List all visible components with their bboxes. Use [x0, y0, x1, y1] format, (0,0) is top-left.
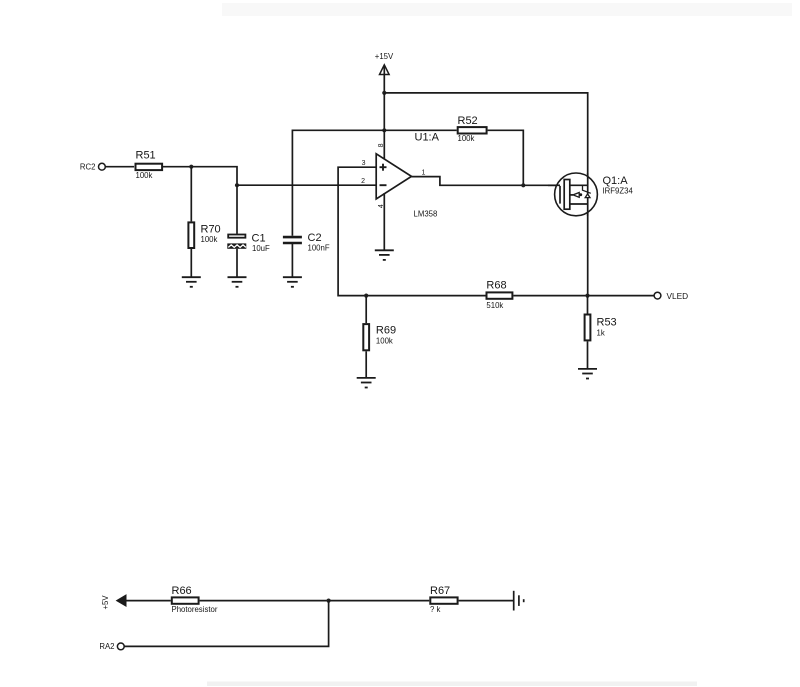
wire node B to op-amp inverting input — [237, 184, 376, 186]
capacitor C2 — [283, 232, 330, 253]
wire top rail to MOSFET source column — [384, 93, 587, 296]
svg-text:1: 1 — [422, 170, 426, 177]
terminal VLED — [654, 291, 688, 301]
wire R66 to node H — [200, 600, 329, 602]
svg-text:IRF9Z34: IRF9Z34 — [603, 187, 634, 196]
wire node G down to R53 — [587, 296, 589, 314]
wire node C down to node D — [383, 93, 385, 130]
terminal RA2 — [99, 642, 124, 651]
resistor R67 — [430, 585, 458, 614]
wire +15V down to node C — [383, 66, 385, 93]
svg-text:510k: 510k — [486, 301, 503, 310]
wire R51 to node A — [162, 166, 191, 168]
svg-text:RC2: RC2 — [80, 162, 96, 171]
svg-text:100k: 100k — [201, 235, 218, 244]
svg-text:Photoresistor: Photoresistor — [172, 605, 218, 614]
svg-text:R52: R52 — [458, 115, 478, 127]
ground under C1 — [228, 277, 247, 287]
ground right of R67 (rotated) — [514, 591, 524, 611]
wire node D to C2 — [292, 130, 384, 236]
wire node F to R68 — [366, 295, 485, 297]
svg-text:VLED: VLED — [667, 291, 689, 301]
wire +5V arrow to R66 — [125, 600, 171, 602]
ground under R70 — [182, 277, 201, 287]
svg-text:R53: R53 — [597, 317, 617, 329]
svg-text:10uF: 10uF — [252, 244, 270, 253]
ground under op-amp — [375, 250, 394, 260]
wire op-amp pin 4 to ground — [383, 193, 385, 250]
svg-text:R68: R68 — [486, 280, 506, 292]
ground under R53 — [578, 369, 597, 379]
node G junction — [585, 294, 589, 298]
wire node B down to C1 — [236, 185, 238, 234]
svg-text:100nF: 100nF — [308, 244, 330, 253]
svg-text:2: 2 — [361, 178, 365, 185]
node H junction — [327, 599, 331, 603]
wire node H to R67 — [329, 600, 430, 602]
wire R69 to ground — [365, 351, 367, 378]
svg-text:3: 3 — [362, 160, 366, 167]
wire R67 to ground — [459, 600, 514, 602]
svg-text:100k: 100k — [376, 337, 393, 346]
svg-text:R69: R69 — [376, 325, 396, 337]
resistor R68 — [486, 280, 512, 311]
wire node A down to R70 — [190, 167, 192, 222]
svg-text:R67: R67 — [430, 585, 450, 597]
node D junction — [382, 128, 386, 132]
svg-text:Q1:A: Q1:A — [603, 175, 629, 187]
wire RA2 up to node H — [124, 601, 328, 647]
power +15V symbol — [375, 52, 394, 75]
wire node D to op-amp V+ pin 8 — [383, 130, 385, 160]
wire node D to R52 — [384, 129, 456, 131]
svg-text:R66: R66 — [172, 585, 192, 597]
wire node A to corner and down to node B — [191, 167, 237, 186]
svg-text:LM358: LM358 — [414, 210, 438, 219]
op-amp U1:A — [361, 132, 440, 219]
node B junction — [235, 183, 239, 187]
wire R53 to ground — [587, 341, 589, 369]
svg-text:1k: 1k — [597, 329, 605, 338]
ground under R69 — [357, 378, 376, 388]
svg-text:U1:A: U1:A — [415, 132, 440, 144]
wire RC2 to R51 — [105, 166, 134, 168]
svg-text:C1: C1 — [252, 233, 266, 245]
resistor R70 — [188, 222, 220, 248]
wire node F down to R69 — [365, 296, 367, 324]
wire R68 to node G — [513, 295, 587, 297]
resistor R52 — [458, 115, 487, 143]
svg-text:C2: C2 — [308, 232, 322, 244]
ground under C2 — [283, 277, 302, 287]
svg-text:R51: R51 — [136, 150, 156, 162]
terminal RC2 — [80, 162, 105, 171]
svg-text:RA2: RA2 — [99, 642, 114, 651]
capacitor C1 (electrolytic) — [227, 233, 270, 254]
transistor Q1 (IRF9Z34 p-MOSFET) — [548, 173, 633, 216]
svg-text:? k: ? k — [430, 605, 441, 614]
svg-text:8: 8 — [378, 143, 385, 147]
wire R52 to gate node E — [488, 130, 524, 185]
wire C1 to ground — [236, 249, 238, 277]
svg-text:100k: 100k — [136, 171, 153, 180]
svg-text:100k: 100k — [458, 134, 475, 143]
node F junction — [364, 294, 368, 298]
wire R70 to ground — [190, 249, 192, 277]
svg-text:R70: R70 — [201, 224, 221, 236]
wire C2 to ground — [291, 243, 293, 277]
svg-text:+15V: +15V — [375, 52, 394, 61]
power +5V arrow (left-pointing) — [101, 595, 126, 610]
svg-text:+5V: +5V — [101, 595, 110, 610]
wire node E to MOSFET gate — [523, 184, 560, 186]
node C junction (+15V rail) — [382, 91, 386, 95]
resistor R66 (photoresistor) — [172, 585, 218, 614]
wire op-amp output — [411, 177, 523, 186]
node A junction — [189, 165, 193, 169]
resistor R69 — [363, 324, 396, 350]
resistor R51 — [136, 150, 163, 181]
wire node G to VLED terminal — [588, 295, 655, 297]
resistor R53 — [585, 315, 617, 341]
wire op-amp non-inverting input to bottom node F — [338, 167, 376, 295]
node E junction (gate/feedback) — [521, 183, 525, 187]
